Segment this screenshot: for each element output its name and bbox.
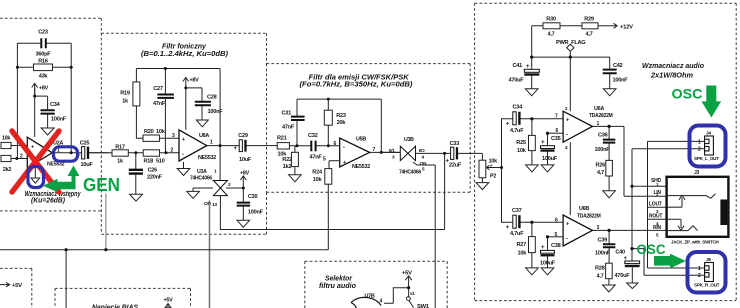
- op-amp U6A TDA2822M: [563, 111, 592, 142]
- wire C26 column: [135, 153, 137, 194]
- svg-text:+5V: +5V: [402, 271, 412, 277]
- wire C31 bottom to node: [296, 120, 298, 145]
- svg-text:0/1: 0/1: [389, 148, 396, 154]
- svg-text:(Fo=0.7kHz, B=350Hz, Ku=0dB): (Fo=0.7kHz, B=350Hz, Ku=0dB): [300, 80, 414, 89]
- svg-text:10k: 10k: [517, 148, 527, 154]
- svg-text:R20: R20: [144, 129, 154, 135]
- svg-text:4,7uF: 4,7uF: [510, 128, 524, 134]
- ground (R28): [603, 285, 616, 292]
- wire SHD column / C40 feed: [631, 149, 633, 261]
- wire R22 to ground: [294, 146, 296, 175]
- resistor R17 1k: [112, 150, 128, 156]
- wire U6B -in row: [548, 236, 564, 238]
- wire C35 column: [547, 133, 549, 165]
- wire U2A gnd stem: [34, 168, 36, 179]
- ground (R27): [526, 268, 539, 275]
- svg-text:10uF: 10uF: [80, 162, 93, 168]
- svg-text:C33: C33: [450, 141, 460, 147]
- svg-text:J5: J5: [706, 257, 711, 263]
- svg-text:Selektor: Selektor: [325, 275, 353, 282]
- block outline: Filtr CW box: [267, 64, 471, 193]
- svg-text:4,7: 4,7: [597, 170, 604, 176]
- jack LIN internal wire with chevron: [667, 194, 716, 199]
- potentiometer P2 10k: [479, 160, 486, 178]
- wire SPK_L pin2 to SHD: [632, 148, 705, 150]
- svg-text:R28: R28: [595, 266, 605, 272]
- analog switch U3B 74HC4066: [400, 146, 415, 160]
- ground (P2): [476, 183, 489, 190]
- svg-text:GEN: GEN: [83, 175, 120, 195]
- svg-text:+8V: +8V: [39, 86, 49, 92]
- svg-text:C27: C27: [153, 86, 163, 92]
- wire input row R17 R18: [89, 152, 179, 154]
- power +5V arrow (selector): [405, 276, 412, 287]
- wire C38 column: [547, 237, 549, 268]
- capacitor C38 100uF electrolytic: [541, 250, 555, 256]
- wire C34 row to U6A +in: [520, 118, 563, 120]
- resistor R24 10k: [325, 169, 332, 185]
- svg-text:U3A: U3A: [197, 169, 207, 175]
- wire branch x=106 up: [105, 194, 107, 250]
- ground (C34a): [41, 128, 54, 135]
- svg-text:4,7: 4,7: [597, 274, 604, 280]
- wire P2 bottom to ground: [481, 178, 483, 183]
- svg-text:10k: 10k: [156, 129, 166, 135]
- capacitor C23: [41, 38, 46, 48]
- resistor R21 10k: [277, 143, 289, 149]
- node C37/R27 junction: [530, 221, 533, 224]
- ground (R26): [603, 191, 616, 198]
- annotation green up arrow (GEN): [68, 166, 80, 185]
- node SHD junction: [630, 185, 633, 188]
- svg-text:+: +: [566, 221, 569, 227]
- wire R30 left to rail corner: [532, 26, 543, 57]
- wire R23 column: [327, 99, 329, 146]
- ground (below U8A): [177, 169, 190, 176]
- svg-text:R26: R26: [596, 163, 606, 169]
- svg-text:OSC: OSC: [637, 242, 666, 257]
- ground (U3A left): [187, 191, 200, 198]
- svg-text:-: -: [343, 145, 345, 151]
- wire input lower to op-amp: [11, 158, 27, 160]
- ground (C40): [627, 283, 638, 289]
- ground (C42): [603, 89, 616, 96]
- node U3B output junction: [443, 152, 446, 155]
- capacitor C33 22uF electrolytic: [451, 147, 458, 159]
- svg-text:+5V: +5V: [164, 298, 174, 304]
- block outline: Napiecie BIAS box: [55, 288, 191, 308]
- svg-text:TDA2822M: TDA2822M: [577, 214, 601, 220]
- wire branch down at x=66: [65, 250, 67, 308]
- resistor R2 input 2k2: [1, 155, 11, 161]
- svg-text:510: 510: [156, 159, 165, 165]
- capacitor C40 470uF electrolytic: [631, 149, 633, 261]
- svg-text:47nF: 47nF: [310, 155, 323, 161]
- capacitor C35 100uF electrolytic: [541, 146, 555, 152]
- svg-text:C30: C30: [248, 194, 258, 200]
- wire +8V stem and branches: [35, 88, 48, 138]
- wire R20 to pin3: [159, 137, 179, 139]
- op-amp U2A: [27, 137, 52, 168]
- svg-text:JACK_ZP_with_SWITCH: JACK_ZP_with_SWITCH: [671, 240, 719, 245]
- svg-text:C34: C34: [50, 102, 61, 108]
- wire U6B output to jack RIN: [592, 229, 666, 231]
- svg-text:100nF: 100nF: [595, 147, 611, 153]
- svg-text:+: +: [566, 118, 569, 124]
- ground (C41): [525, 89, 538, 96]
- resistor R19 1k: [133, 82, 140, 106]
- jack ROUT internal wire: [667, 218, 681, 220]
- capacitor C26 220nF: [129, 170, 143, 174]
- wire U7B pin to +5V node: [384, 288, 409, 304]
- wire input node row: [289, 145, 339, 147]
- analog switch U3A 74HC4066: [213, 181, 227, 196]
- wire input upper to op-amp: [11, 145, 27, 147]
- capacitor C28 100nF: [195, 102, 211, 105]
- node CW input: [296, 144, 299, 147]
- svg-text:4,7: 4,7: [585, 32, 592, 38]
- svg-text:13: 13: [212, 202, 217, 208]
- wire C40 node to SPK_R pin2: [632, 249, 705, 276]
- jack RIN internal wire with zigzag: [667, 226, 698, 231]
- wire control U3A to selector (gray): [209, 201, 211, 308]
- wire main +V rail: [532, 56, 610, 58]
- svg-text:100nF: 100nF: [208, 109, 224, 115]
- resistor R28 4,7: [606, 263, 613, 279]
- node rail junction: [327, 98, 330, 101]
- svg-text:C39: C39: [598, 237, 608, 243]
- jack left contact arrow: [667, 195, 685, 207]
- wire R26 to ground: [608, 176, 610, 191]
- op-amp U8A: [179, 130, 207, 161]
- annotation green down arrow (OSC top): [702, 86, 722, 118]
- svg-text:100nF: 100nF: [248, 210, 264, 216]
- annotation green left arrow (GEN): [43, 179, 76, 193]
- svg-text:74HC4066: 74HC4066: [399, 170, 421, 176]
- svg-text:-: -: [566, 236, 568, 242]
- wire U3B out to C33: [416, 152, 450, 154]
- wire U3A right pin to +8V node: [226, 187, 243, 189]
- svg-text:C32: C32: [308, 133, 318, 139]
- wire CW feedback rail: [297, 99, 381, 152]
- svg-text:1k2: 1k2: [283, 164, 292, 170]
- capacitor C31 47nF: [291, 117, 305, 120]
- svg-text:74HC4066: 74HC4066: [190, 176, 212, 182]
- wire C34a to ground: [47, 114, 49, 128]
- node U8A output junction: [219, 144, 222, 147]
- node U6B output junction: [608, 229, 611, 232]
- svg-text:TDA2822M: TDA2822M: [589, 113, 613, 119]
- capacitor C27 47nF: [157, 95, 174, 98]
- svg-text:SPK_L_OUT: SPK_L_OUT: [694, 156, 719, 161]
- svg-text:U6B: U6B: [579, 206, 589, 212]
- node U6A output junction: [608, 125, 611, 128]
- switch SW1: [408, 288, 410, 297]
- svg-text:U7B: U7B: [365, 294, 375, 300]
- svg-text:C41: C41: [513, 63, 523, 69]
- svg-text:R24: R24: [312, 170, 323, 176]
- wire U6A power pin: [569, 57, 571, 111]
- wire feedback loop right vertical: [70, 43, 72, 153]
- wire R30-R29 link: [560, 25, 582, 27]
- annotation blue pill on preamp ground: [28, 167, 44, 188]
- svg-text:P2: P2: [490, 173, 496, 179]
- svg-text:C35: C35: [551, 136, 561, 142]
- block outline: Selektor filtru audio box: [305, 261, 447, 308]
- jack slot (black): [720, 200, 727, 226]
- svg-text:R23: R23: [336, 113, 346, 119]
- power +8V arrow (preamp): [32, 84, 38, 96]
- power +8V arrow (U3A node): [240, 176, 246, 187]
- resistor R27 10k: [529, 237, 536, 253]
- wire P2 wiper out: [486, 167, 501, 169]
- wire U8A gnd stem: [183, 162, 185, 168]
- wire C27 column: [164, 69, 166, 153]
- svg-text:J3: J3: [694, 170, 700, 176]
- wire U6A-U6B shared pin column: [569, 142, 571, 215]
- svg-text:SPK_R_OUT: SPK_R_OUT: [694, 282, 720, 287]
- ground (C30): [237, 220, 250, 227]
- svg-text:47nF: 47nF: [282, 125, 295, 131]
- wire feedback top to C23: [17, 42, 71, 44]
- svg-text:RIN: RIN: [653, 225, 662, 231]
- node: feedback-output junction: [16, 66, 19, 69]
- svg-text:20k: 20k: [337, 120, 347, 126]
- svg-text:470uF: 470uF: [509, 78, 525, 84]
- wire U6A -in row: [548, 132, 564, 134]
- svg-text:360pF: 360pF: [36, 52, 52, 58]
- resistor R25 10k: [529, 135, 536, 150]
- wire R16 row: [17, 66, 71, 68]
- wire U5B output: [370, 151, 400, 153]
- svg-text:R29: R29: [584, 17, 594, 23]
- wire U8A output: [207, 145, 277, 147]
- resistor R18 510: [143, 150, 159, 156]
- wire C41 column: [531, 57, 533, 89]
- ground (C28): [196, 120, 208, 127]
- svg-text:U6A: U6A: [594, 106, 604, 112]
- svg-text:R17: R17: [115, 144, 125, 150]
- jack right contact arrow: [678, 219, 684, 230]
- svg-text:470uF: 470uF: [615, 273, 631, 279]
- svg-text:ON: ON: [204, 201, 211, 207]
- svg-text:C25: C25: [80, 141, 90, 147]
- svg-text:43k: 43k: [39, 74, 49, 80]
- capacitor C39 100nF: [603, 244, 615, 247]
- connector J5 SPK_R_OUT: [705, 263, 714, 282]
- annotation green right arrow (OSC bottom): [654, 254, 686, 269]
- wire U5B out to U3B: [381, 151, 400, 153]
- svg-text:LOUT: LOUT: [649, 202, 662, 208]
- connector J3 jack body: [667, 177, 729, 237]
- svg-text:47nF: 47nF: [153, 101, 166, 107]
- svg-text:C34: C34: [513, 105, 524, 111]
- resistor R26 4,7: [606, 160, 613, 176]
- ground (C35): [541, 165, 554, 172]
- wire U8A out down to U3A: [219, 146, 221, 181]
- power +8V arrow (U8A): [183, 78, 189, 87]
- resistor R20 10k: [143, 135, 159, 141]
- resistor R30 4,7: [543, 23, 560, 29]
- wire U3A left pin to ground: [193, 188, 213, 191]
- svg-text:C40: C40: [615, 250, 625, 256]
- block outline: +5V mini box bottom-left: [0, 268, 32, 308]
- node C40 junction: [630, 247, 633, 250]
- node C35 junction: [546, 132, 549, 135]
- block outline: Filtr foniczny box: [101, 33, 266, 234]
- svg-text:R21: R21: [277, 136, 287, 142]
- svg-text:J4: J4: [706, 131, 711, 137]
- block outline: Wzmacniacz audio box: [475, 3, 737, 300]
- ground (C38): [541, 268, 554, 275]
- svg-text:C31: C31: [282, 111, 292, 117]
- resistor R22 1k2: [291, 152, 298, 166]
- svg-text:+: +: [182, 137, 185, 143]
- svg-text:100nF: 100nF: [595, 250, 611, 256]
- wire SPK_L pin1 to LOUT column: [648, 141, 705, 268]
- svg-text:10k: 10k: [518, 251, 528, 257]
- wire R19 bottom to R20: [136, 106, 143, 138]
- wire C42 column: [609, 57, 611, 89]
- wire long rail y=249.7: [0, 249, 328, 251]
- svg-text:100uF: 100uF: [542, 156, 558, 162]
- ground (R25): [526, 165, 539, 172]
- svg-text:I/O: I/O: [419, 148, 425, 154]
- wire C40 bottom to ground: [631, 267, 633, 283]
- svg-text:10k: 10k: [313, 177, 323, 183]
- capacitor C36 100nF: [603, 140, 615, 143]
- wire SHD pin row: [632, 185, 667, 187]
- wire LOUT pin row: [648, 206, 667, 208]
- wire U3B control to selector: [413, 162, 435, 308]
- resistor R1 input 10k: [1, 142, 11, 148]
- annotation blue rounded box SPK_R_OUT: [688, 252, 726, 293]
- node C34/R25 junction: [530, 117, 533, 120]
- capacitor C29 10uF electrolytic: [239, 140, 246, 152]
- svg-text:10uF: 10uF: [239, 157, 252, 163]
- svg-text:R22: R22: [282, 157, 292, 163]
- svg-text:4,7: 4,7: [547, 32, 554, 38]
- wire R28 to ground: [608, 279, 610, 285]
- svg-text:100uF: 100uF: [540, 261, 556, 267]
- wire C39 column: [608, 230, 610, 263]
- svg-text:U5B: U5B: [356, 136, 366, 142]
- annotation blue pill on preamp output: [54, 147, 78, 161]
- wire R27 column: [531, 222, 533, 268]
- svg-text:C38: C38: [551, 243, 561, 249]
- op-amp U5B: [340, 138, 370, 167]
- wire C30 column: [242, 188, 244, 220]
- ground (C26): [130, 194, 143, 201]
- svg-text:R27: R27: [517, 242, 527, 248]
- wire foniczny top feedback rail: [136, 69, 220, 146]
- capacitor C34 4,7uF electrolytic: [513, 112, 521, 125]
- svg-text:C23: C23: [38, 30, 48, 36]
- wire U5B +in: [329, 161, 340, 169]
- svg-text:2x1W/8Ohm: 2x1W/8Ohm: [650, 70, 694, 79]
- power +12V arrow: [610, 23, 617, 28]
- wire C33 to P2: [458, 153, 483, 160]
- connector J4 SPK_L_OUT: [705, 136, 714, 155]
- node U5B output junction: [380, 151, 383, 154]
- wire C37 row to U6B +in: [520, 221, 563, 223]
- resistor R16: [34, 64, 53, 71]
- svg-text:NE5532: NE5532: [352, 164, 370, 170]
- wire +8V stem U8A: [186, 86, 202, 130]
- svg-text:Napiecie BIAS: Napiecie BIAS: [92, 305, 138, 308]
- svg-text:100nF: 100nF: [613, 78, 629, 84]
- ground (below U2A, in blue pill): [31, 178, 40, 183]
- wire SPK_R pin1 row: [648, 267, 705, 269]
- wire C36 column: [608, 126, 610, 160]
- svg-text:+5V: +5V: [12, 283, 22, 289]
- svg-text:R19: R19: [120, 91, 130, 97]
- capacitor C25 10uF electrolytic: [82, 147, 90, 159]
- wire R24 bottom to rail: [327, 184, 329, 250]
- capacitor C37 4,7uF electrolytic: [513, 215, 521, 228]
- svg-text:+: +: [31, 144, 34, 150]
- node junctions foniczny: [134, 151, 137, 154]
- svg-text:ROUT: ROUT: [649, 214, 662, 220]
- power +5V mini box arrow: [0, 282, 10, 286]
- resistor R29 4,7: [582, 23, 598, 29]
- svg-text:R18: R18: [144, 159, 154, 165]
- svg-text:(B=0.1..2.4kHz, Ku=0dB): (B=0.1..2.4kHz, Ku=0dB): [141, 49, 229, 58]
- capacitor C32 47nF: [311, 141, 315, 152]
- svg-text:+12V: +12V: [620, 24, 633, 30]
- svg-text:OSC: OSC: [672, 86, 703, 102]
- wire U3B out branch down to y229.5: [444, 153, 446, 229]
- svg-text:U3B: U3B: [404, 137, 414, 143]
- annotation blue rounded box SPK_L_OUT: [690, 126, 726, 167]
- wire R29 to +12V arrow: [598, 25, 610, 27]
- wire C28 to ground: [201, 105, 203, 119]
- capacitor C34a 100nF: [41, 110, 55, 113]
- svg-text:+: +: [343, 160, 346, 166]
- op-amp U6B TDA2822M: [563, 215, 592, 246]
- svg-text:-: -: [182, 152, 184, 158]
- wire U6A out down to jack LIN: [624, 195, 667, 197]
- gate U7B: [351, 297, 381, 308]
- svg-text:100nF: 100nF: [51, 117, 67, 123]
- svg-text:+8V: +8V: [190, 77, 200, 83]
- svg-text:22uF: 22uF: [449, 163, 462, 169]
- node rail junctions: [65, 248, 68, 251]
- svg-text:U8A: U8A: [199, 133, 209, 139]
- svg-text:SW1: SW1: [417, 304, 430, 308]
- svg-text:(Ku=26dB): (Ku=26dB): [31, 197, 66, 204]
- svg-text:C29: C29: [238, 133, 248, 139]
- block outline: Wzmacniacz wstepny box: [0, 18, 101, 233]
- wire R25 column: [531, 119, 533, 165]
- node C38 junction: [546, 235, 549, 238]
- svg-text:NE5532: NE5532: [198, 155, 216, 161]
- wire feedback loop left vertical: [16, 43, 18, 158]
- svg-text:C36: C36: [598, 133, 608, 139]
- svg-text:filtru audio: filtru audio: [319, 283, 357, 290]
- wire wiper node down to C37: [502, 168, 513, 223]
- svg-text:+8V: +8V: [240, 171, 250, 177]
- svg-text:R16: R16: [38, 59, 48, 65]
- wire U3A bottom to y229.5 rail: [220, 196, 444, 230]
- svg-text:4,7uF: 4,7uF: [510, 231, 524, 237]
- annotation red X over preamp: [12, 131, 59, 192]
- svg-text:2k2: 2k2: [3, 167, 11, 173]
- wire wiper node up to C34: [502, 119, 513, 168]
- wire ROUT pin row: [648, 218, 667, 220]
- svg-text:Wzmacniacz audio: Wzmacniacz audio: [642, 61, 705, 70]
- svg-text:10k: 10k: [2, 136, 10, 142]
